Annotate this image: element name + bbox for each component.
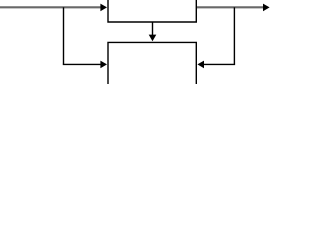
arrowhead into bottom block top [149,35,157,42]
arrowhead into bottom block right [197,61,204,69]
wire branch left horizontal [63,63,101,65]
wire branch right vertical [233,7,235,64]
block top (cut off at top edge) [108,0,196,22]
wire from top block bottom to bottom block [152,22,154,36]
arrowhead output right edge [263,4,270,12]
wire input (gray, from left edge) [0,6,102,8]
block bottom (cut off at bottom edge) [108,42,196,86]
wire branch left vertical [63,7,65,64]
arrowhead into top block left [100,4,107,12]
arrowhead into bottom block left [100,61,107,69]
wire output (gray, to right edge) [197,6,264,8]
wire branch right horizontal [203,63,235,65]
